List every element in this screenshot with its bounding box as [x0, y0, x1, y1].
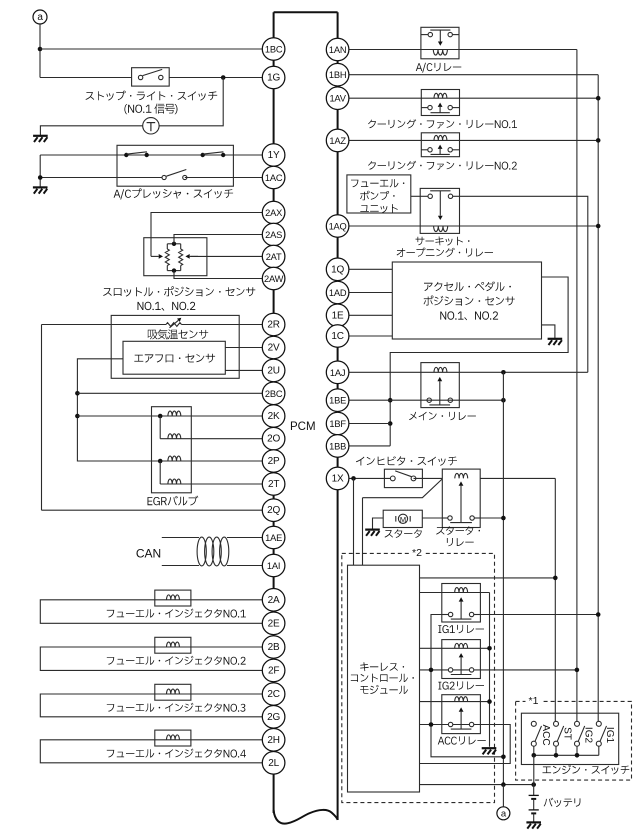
- svg-text:1C: 1C: [331, 331, 343, 342]
- wire EGR link upper: [159, 416, 161, 439]
- wire 1G left segment: [40, 77, 132, 79]
- wire starter relay coil link: [363, 479, 443, 498]
- resistor TPS right: [179, 244, 183, 271]
- pin 1X: [326, 467, 349, 490]
- svg-text:1AD: 1AD: [329, 288, 347, 298]
- svg-text:1BF: 1BF: [329, 419, 346, 429]
- wire ACC contact loop: [420, 725, 511, 764]
- wire CAN right top: [227, 537, 262, 539]
- svg-text:1BH: 1BH: [329, 70, 347, 80]
- wire rail 1AJ down: [502, 372, 504, 784]
- svg-text:2P: 2P: [268, 456, 280, 467]
- pin 1Q: [326, 258, 349, 281]
- dashed box keyless system: [342, 553, 495, 802]
- contact dots AC pressure upper: [124, 153, 225, 157]
- svg-text:2Q: 2Q: [267, 505, 280, 516]
- wire CAN top: [162, 537, 199, 539]
- svg-text:1AZ: 1AZ: [329, 136, 346, 146]
- label CAN: [136, 547, 161, 561]
- label keyless3: [360, 685, 408, 694]
- relay ACC arrow: [459, 707, 464, 729]
- wire 1E: [349, 314, 392, 316]
- wire 1AD: [349, 292, 392, 294]
- label TPS line2: [138, 302, 196, 311]
- wire 2R left: [42, 324, 167, 326]
- wire 2T: [160, 483, 262, 485]
- coil relay fan1: [434, 93, 447, 98]
- junction dot 1AC ground: [38, 175, 43, 180]
- junction dot 1AJ rail: [501, 370, 506, 375]
- relay AC box: [421, 27, 459, 59]
- wire left rail 2R-2Q: [41, 325, 43, 511]
- label keyless1: [360, 662, 404, 671]
- pin 2U: [262, 359, 285, 382]
- svg-text:ACC: ACC: [540, 724, 551, 745]
- pin 2G: [262, 706, 285, 729]
- wire CAN bottom: [162, 565, 199, 567]
- label main relay: [409, 412, 476, 421]
- svg-text:2K: 2K: [268, 411, 280, 422]
- relay AC contacts: [421, 30, 459, 37]
- coil EGR 2: [168, 434, 181, 439]
- wire CAN right bottom: [227, 565, 262, 567]
- PCM module box outline: [274, 12, 338, 823]
- coil injector NO.3: [167, 689, 180, 694]
- switch engine IG1 contacts: [596, 721, 606, 746]
- relay starter contacts: [442, 516, 480, 523]
- wire 1AC right: [185, 177, 262, 179]
- svg-text:IG1: IG1: [604, 727, 615, 744]
- TPS top bar: [167, 243, 180, 245]
- switch engine ACC contacts: [531, 721, 541, 746]
- wire EGR link lower: [159, 461, 161, 484]
- svg-text:2F: 2F: [268, 665, 279, 676]
- label sw ACC: [540, 724, 551, 745]
- sensor TPS box: [144, 238, 207, 276]
- svg-text:2T: 2T: [268, 479, 279, 490]
- pin 1BB: [326, 435, 349, 458]
- junction dot 1X branch: [351, 476, 356, 481]
- pin 2L: [262, 752, 285, 775]
- switch AC pressure box: [117, 145, 233, 186]
- wire 2Q: [42, 509, 263, 511]
- wire 2U: [225, 369, 262, 371]
- switch stop light: [132, 68, 170, 86]
- wire 2K: [77, 415, 262, 417]
- svg-text:1AI: 1AI: [267, 561, 280, 571]
- wire bus to battery: [533, 755, 535, 784]
- resistor TPS left: [165, 244, 169, 271]
- sensor accel pedal box: [392, 262, 541, 339]
- svg-text:2AT: 2AT: [266, 252, 282, 262]
- label air temp sensor: [148, 329, 208, 339]
- pin 1BF: [326, 412, 349, 435]
- wire coil ground rail: [489, 593, 491, 747]
- injector NO.3 box: [155, 684, 191, 700]
- relay cooling fan2 box: [421, 133, 459, 157]
- wire 1C: [349, 335, 392, 337]
- wire 1BC: [40, 48, 262, 50]
- svg-text:2L: 2L: [268, 758, 279, 769]
- label engine switch: [543, 765, 630, 775]
- wire 1AC left: [40, 177, 164, 179]
- svg-text:a: a: [37, 12, 43, 23]
- label air flow sensor: [134, 354, 215, 363]
- wire 2R right: [182, 324, 263, 326]
- label circuit opening2: [397, 248, 493, 257]
- svg-text:1AJ: 1AJ: [330, 368, 345, 378]
- pin 2AT: [262, 245, 285, 268]
- junction dot battery feed rail: [501, 782, 506, 787]
- label fuel injector NO.3: [107, 703, 246, 712]
- coil relay IG2: [455, 643, 468, 648]
- label AC relay: [416, 63, 462, 73]
- pin 2P: [262, 450, 285, 473]
- relay IG1 arrow: [459, 597, 464, 619]
- relay fan1 contacts: [421, 105, 459, 112]
- wire 1BB: [349, 445, 390, 447]
- junction dot battery: [531, 782, 536, 787]
- relay IG2 contacts: [448, 668, 473, 675]
- pin 2R: [262, 313, 285, 336]
- wire module to ST rail: [420, 577, 556, 579]
- svg-text:CAN: CAN: [136, 547, 161, 561]
- label fuel pump3: [360, 204, 398, 213]
- injector NO.4 loop wire: [40, 740, 262, 763]
- pin 1AJ: [326, 361, 349, 384]
- relay main contacts: [427, 398, 452, 405]
- svg-text:*2: *2: [412, 547, 422, 559]
- coil relay ACC: [455, 697, 468, 702]
- wire 1AZ: [349, 139, 598, 141]
- svg-text:1BE: 1BE: [329, 396, 346, 406]
- pin 1BC: [262, 38, 285, 61]
- junction dot IG2 contact left: [429, 668, 434, 673]
- wire 2O: [160, 438, 262, 440]
- junction dot 1BE rail: [501, 398, 506, 403]
- junction dot 1AV rail: [596, 96, 601, 101]
- label ACC relay: [438, 736, 486, 744]
- relay COR contacts: [420, 191, 459, 199]
- coil EGR 1: [168, 411, 181, 416]
- injector NO.2 loop wire: [40, 647, 262, 670]
- wire IG1 contact right: [480, 614, 598, 616]
- pin 2O: [262, 427, 285, 450]
- junction dot IG2 rail: [575, 668, 580, 673]
- svg-text:1AE: 1AE: [265, 533, 282, 543]
- wire 2V: [225, 347, 262, 349]
- junction dot 1AQ rail: [596, 224, 601, 229]
- wire accel ground: [542, 325, 555, 338]
- junction dot EGR 2K: [158, 414, 163, 419]
- switch engine box: [521, 713, 618, 764]
- relay starter box: [442, 469, 480, 527]
- pin 1Y: [262, 144, 285, 167]
- dashed box engine switch: [516, 701, 632, 780]
- switch inhibitor contacts: [390, 471, 416, 481]
- pin 1AN: [326, 38, 349, 61]
- inductor CAN twisted pair: [197, 537, 229, 566]
- wire starter relay contact out: [480, 517, 503, 519]
- wire ACC coil: [420, 701, 490, 703]
- coil relay COR: [434, 226, 448, 232]
- svg-text:2A: 2A: [268, 595, 280, 606]
- wire 1Q: [349, 268, 392, 270]
- junction dot a/1BC: [38, 47, 43, 52]
- label cooling fan relay2: [368, 161, 517, 170]
- injector NO.1 loop wire: [40, 600, 262, 624]
- label starter: [385, 529, 422, 538]
- svg-text:2C: 2C: [267, 689, 279, 700]
- svg-text:2O: 2O: [267, 434, 280, 445]
- junction dot ST rail: [553, 576, 558, 581]
- relay fan2 arrow: [438, 145, 443, 155]
- label star2: [409, 547, 425, 559]
- wire 1Y left: [40, 154, 117, 156]
- contact AC pressure lower: [162, 170, 187, 180]
- label inhibitor switch: [356, 456, 457, 466]
- relay main arrow: [437, 377, 442, 405]
- switch inhibitor box: [384, 469, 422, 487]
- svg-text:2AS: 2AS: [265, 230, 282, 240]
- label keyless2: [351, 674, 414, 683]
- pin 2T: [262, 473, 285, 496]
- label stop light no1: [124, 104, 177, 115]
- ground accel pedal sensor: [548, 339, 563, 345]
- label starter relay1: [436, 526, 480, 535]
- pin 2K: [262, 405, 285, 428]
- wire ACC contact: [420, 724, 481, 726]
- wire 2P: [160, 460, 262, 462]
- junction dot starter relay rail: [501, 516, 506, 521]
- label sw ST: [561, 727, 572, 740]
- svg-text:1AQ: 1AQ: [329, 222, 347, 232]
- wire starter to ground: [373, 518, 384, 529]
- label battery: [544, 798, 581, 807]
- wire 1AQ: [349, 225, 598, 227]
- coil injector NO.4: [167, 735, 180, 740]
- valve EGR box: [152, 407, 192, 493]
- label fuel injector NO.2: [107, 656, 246, 665]
- relay IG2 arrow: [459, 653, 464, 674]
- pin 1E: [326, 304, 349, 327]
- pin 1AZ: [326, 129, 349, 152]
- junction dot ACC contact left: [429, 722, 434, 727]
- module keyless box: [348, 565, 420, 792]
- label starter relay2: [447, 538, 474, 546]
- svg-text:1AN: 1AN: [329, 45, 347, 55]
- label accel2: [424, 296, 515, 306]
- junction dot IG1 rail: [596, 612, 601, 617]
- junction dot EGR 2P: [158, 459, 163, 464]
- pin 1AV: [326, 87, 349, 110]
- label EGR valve: [148, 496, 199, 506]
- label IG1 relay: [438, 625, 484, 633]
- junction dot stop lamp branch: [221, 75, 226, 80]
- wire 1X to starter relay: [414, 477, 443, 479]
- coil relay IG1: [455, 588, 468, 593]
- node a (top feed): [33, 10, 47, 24]
- wire 1X into module: [353, 478, 355, 565]
- sensor air flow box: [123, 341, 225, 374]
- svg-text:ST: ST: [561, 727, 572, 740]
- switch engine IG2 contacts: [575, 721, 585, 746]
- svg-text:2E: 2E: [268, 618, 280, 629]
- label stop light switch: [86, 91, 218, 101]
- wire 1AJ: [349, 371, 588, 373]
- pin 1AE: [262, 526, 285, 549]
- wire switch to 1G: [169, 77, 262, 79]
- relay circuit opening box: [420, 188, 459, 233]
- battery symbol: [529, 785, 539, 823]
- wire air flow to left rail: [77, 359, 160, 461]
- wire 2AW: [174, 271, 262, 279]
- svg-text:1AV: 1AV: [329, 94, 346, 104]
- injector NO.3 loop wire: [40, 694, 262, 717]
- coil EGR 4: [168, 479, 181, 484]
- relay AC arrow: [438, 30, 443, 46]
- node a (bottom): [497, 807, 510, 820]
- pin 2C: [262, 683, 285, 706]
- junction dot rail 2BC: [75, 391, 80, 396]
- ground stop light: [33, 136, 48, 142]
- label accel3: [440, 311, 498, 320]
- svg-text:1BC: 1BC: [265, 45, 283, 55]
- pin 2B: [262, 636, 285, 659]
- pin 2AS: [262, 223, 285, 246]
- wire 1BH: [349, 74, 598, 76]
- wire IG1 contact left: [431, 615, 503, 757]
- TPS bottom bar: [167, 270, 180, 272]
- svg-text:2V: 2V: [268, 343, 280, 354]
- pin 2F: [262, 659, 285, 682]
- svg-text:1Q: 1Q: [331, 264, 344, 275]
- svg-text:1BB: 1BB: [329, 441, 346, 451]
- svg-text:2BC: 2BC: [265, 389, 283, 399]
- wire 1Y-1AC ground link: [39, 155, 41, 187]
- svg-text:2H: 2H: [267, 735, 279, 746]
- wire 1BF: [349, 423, 390, 425]
- label cooling fan relay1: [368, 119, 517, 128]
- wire 1X: [349, 477, 393, 479]
- wire a down to 1G level: [39, 24, 41, 78]
- pin 2E: [262, 612, 285, 635]
- wire 1AN: [349, 49, 577, 51]
- pin 2AW: [262, 267, 285, 290]
- svg-text:PCM: PCM: [290, 421, 316, 433]
- svg-text:2AX: 2AX: [265, 208, 282, 218]
- wire rail ST: [554, 478, 556, 721]
- junction dot contact rail bottom: [501, 755, 506, 760]
- wire IG1 coil: [420, 592, 490, 594]
- pin 1BH: [326, 63, 349, 86]
- wire coil link into module: [362, 498, 364, 566]
- thermistor air temp: [166, 318, 182, 328]
- ground relay coils: [482, 748, 497, 754]
- coil relay fan2: [434, 135, 447, 140]
- relay IG1 box: [442, 584, 481, 623]
- svg-text:M: M: [400, 515, 406, 524]
- label sw IG2: [582, 727, 593, 744]
- relay fan1 arrow: [438, 103, 443, 113]
- coil relay starter: [455, 473, 468, 478]
- ground battery: [526, 822, 541, 828]
- svg-text:IG2: IG2: [582, 727, 593, 744]
- junction dot IG2 coil: [487, 646, 492, 651]
- wire engine switch bus: [534, 746, 599, 755]
- wire rail IG2feed: [576, 50, 578, 722]
- relay COR arrow: [438, 191, 443, 220]
- svg-text:2AW: 2AW: [264, 274, 284, 284]
- pin 2AX: [262, 201, 285, 224]
- coil EGR 3: [168, 456, 181, 461]
- injector NO.1 box: [155, 590, 191, 606]
- svg-text:2G: 2G: [267, 712, 280, 723]
- relay IG1 contacts: [442, 612, 481, 619]
- svg-text:1E: 1E: [332, 310, 344, 321]
- wire starter to relay: [422, 517, 442, 519]
- coil injector NO.1: [167, 595, 180, 600]
- wire 2AT: [185, 254, 262, 259]
- switch engine ST contacts: [554, 721, 564, 746]
- contact levers AC pressure upper: [127, 152, 224, 154]
- pin 1AC: [262, 166, 285, 189]
- wire IG2 coil: [420, 647, 490, 649]
- pin 2H: [262, 729, 285, 752]
- wire 1AV: [349, 97, 598, 99]
- pin 1AI: [262, 554, 285, 577]
- coil relay main: [434, 367, 447, 372]
- junction dot rail 2K: [75, 414, 80, 419]
- relay IG2 box: [442, 640, 481, 679]
- motor starter box: [383, 510, 422, 527]
- ground starter: [365, 530, 380, 536]
- junction dot 1AZ rail: [596, 138, 601, 143]
- svg-text:*1: *1: [529, 695, 539, 707]
- wire 2AX: [151, 213, 262, 259]
- lamp stop light indicator: [143, 118, 159, 134]
- pin 1C: [326, 325, 349, 348]
- relay main box: [421, 363, 459, 408]
- svg-text:2B: 2B: [268, 642, 280, 653]
- node TPS bottom: [172, 268, 176, 272]
- wire 1Y through switch: [117, 154, 262, 156]
- junction dot ACC coil: [487, 699, 492, 704]
- pin 1BE: [326, 389, 349, 412]
- pin 2V: [262, 336, 285, 359]
- wire accel loop right: [390, 277, 568, 446]
- wire a stub: [502, 785, 504, 807]
- svg-text:1Y: 1Y: [268, 150, 280, 161]
- svg-text:1X: 1X: [332, 473, 344, 484]
- label fuel injector NO.1: [107, 609, 246, 618]
- relay fan2 contacts: [421, 148, 459, 155]
- junction dots engine bus: [532, 753, 580, 758]
- pin 2Q: [262, 499, 285, 522]
- fuel pump unit box: [347, 175, 411, 213]
- svg-text:2U: 2U: [267, 365, 279, 376]
- label sw IG1: [604, 727, 615, 744]
- relay ACC box: [442, 695, 481, 734]
- wire COR contact out: [460, 196, 588, 372]
- junction dot loop 1BE: [388, 398, 393, 403]
- label fuel injector NO.4: [107, 749, 246, 758]
- label fuel pump1: [351, 179, 404, 187]
- pin 1G: [262, 66, 285, 89]
- wire pump to relay: [411, 195, 420, 197]
- pin 1AQ: [326, 215, 349, 238]
- pin 2BC: [262, 382, 285, 405]
